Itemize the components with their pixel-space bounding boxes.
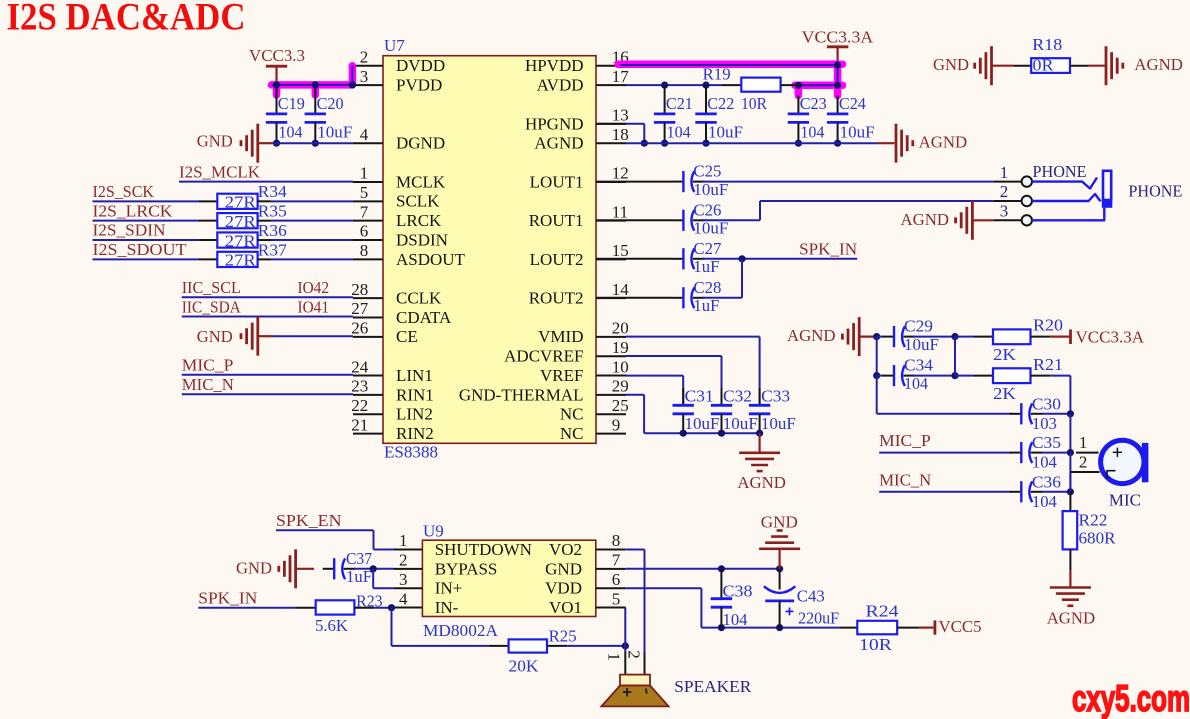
svg-text:IO41: IO41 [298, 297, 330, 316]
svg-text:R22: R22 [1079, 510, 1108, 529]
svg-text:104: 104 [800, 123, 824, 142]
svg-text:CDATA: CDATA [396, 308, 452, 327]
svg-text:3: 3 [399, 570, 408, 589]
svg-text:1: 1 [605, 653, 624, 662]
svg-text:NC: NC [560, 424, 584, 443]
svg-text:DGND: DGND [396, 134, 445, 153]
svg-text:C30: C30 [1032, 394, 1061, 413]
svg-text:12: 12 [612, 164, 629, 183]
svg-text:C19: C19 [278, 94, 305, 113]
svg-text:AGND: AGND [534, 134, 583, 153]
svg-text:103: 103 [1032, 414, 1057, 433]
svg-text:C22: C22 [707, 94, 734, 113]
svg-text:BYPASS: BYPASS [435, 559, 498, 578]
svg-text:C34: C34 [904, 356, 934, 375]
svg-text:3: 3 [360, 67, 369, 86]
svg-text:LOUT1: LOUT1 [530, 172, 584, 191]
svg-text:IN-: IN- [435, 598, 459, 617]
svg-text:10: 10 [612, 357, 629, 376]
svg-text:1uF: 1uF [693, 296, 719, 315]
svg-text:22: 22 [351, 396, 368, 415]
svg-text:29: 29 [612, 377, 629, 396]
svg-text:C35: C35 [1032, 433, 1061, 452]
svg-text:C27: C27 [693, 239, 721, 258]
svg-text:10R: 10R [741, 94, 768, 113]
svg-text:11: 11 [612, 202, 628, 221]
svg-text:C21: C21 [666, 94, 693, 113]
svg-text:R19: R19 [703, 64, 731, 83]
svg-text:U7: U7 [384, 36, 405, 55]
svg-text:8: 8 [360, 241, 369, 260]
svg-text:27: 27 [351, 299, 369, 318]
svg-text:LIN1: LIN1 [396, 366, 433, 385]
svg-text:CCLK: CCLK [396, 289, 442, 308]
svg-text:AGND: AGND [919, 133, 968, 152]
svg-text:1uF: 1uF [346, 567, 372, 586]
svg-text:MIC_P: MIC_P [879, 431, 931, 450]
svg-text:25: 25 [612, 396, 629, 415]
svg-text:24: 24 [351, 357, 369, 376]
svg-text:LIN2: LIN2 [396, 405, 433, 424]
svg-text:10uF: 10uF [693, 219, 728, 238]
svg-text:7: 7 [360, 202, 369, 221]
svg-text:10uF: 10uF [317, 123, 352, 142]
svg-text:1: 1 [399, 531, 408, 550]
svg-text:IN+: IN+ [435, 579, 463, 598]
svg-text:14: 14 [612, 280, 630, 299]
svg-text:U9: U9 [423, 522, 444, 541]
svg-text:10uF: 10uF [693, 180, 728, 199]
svg-text:C20: C20 [317, 94, 344, 113]
svg-text:6: 6 [612, 570, 621, 589]
svg-text:1: 1 [1079, 433, 1088, 452]
svg-text:2: 2 [624, 650, 643, 659]
svg-text:R34: R34 [258, 182, 288, 201]
svg-text:AGND: AGND [787, 326, 836, 345]
svg-text:3: 3 [1000, 202, 1009, 221]
svg-text:C31: C31 [685, 387, 714, 406]
svg-text:VCC3.3A: VCC3.3A [802, 27, 874, 46]
svg-text:C29: C29 [904, 317, 933, 336]
svg-text:23: 23 [351, 377, 368, 396]
svg-text:1uF: 1uF [693, 257, 719, 276]
svg-text:HPGND: HPGND [525, 114, 584, 133]
svg-text:AGND: AGND [737, 473, 786, 492]
svg-text:GND: GND [197, 132, 233, 151]
svg-text:I2S_SCK: I2S_SCK [93, 182, 155, 201]
svg-text:SPK_IN: SPK_IN [198, 588, 257, 607]
svg-text:AGND: AGND [1047, 609, 1096, 628]
svg-text:PHONE: PHONE [1033, 162, 1087, 181]
svg-text:220uF: 220uF [798, 608, 839, 627]
svg-text:C36: C36 [1032, 472, 1061, 491]
svg-text:VO1: VO1 [549, 598, 582, 617]
svg-text:ROUT1: ROUT1 [529, 211, 584, 230]
svg-text:GND: GND [197, 327, 233, 346]
svg-text:I2S_LRCK: I2S_LRCK [93, 201, 174, 220]
svg-text:VDD: VDD [545, 579, 582, 598]
svg-text:10uF: 10uF [723, 414, 758, 433]
svg-text:SPK_IN: SPK_IN [799, 239, 857, 258]
svg-text:104: 104 [723, 610, 748, 629]
svg-text:4: 4 [360, 125, 369, 144]
svg-text:10uF: 10uF [840, 123, 875, 142]
svg-text:8: 8 [612, 531, 621, 550]
svg-text:7: 7 [612, 551, 621, 570]
svg-text:C43: C43 [797, 587, 825, 606]
svg-text:R20: R20 [1033, 316, 1063, 335]
svg-text:27R: 27R [225, 212, 257, 231]
svg-text:0R: 0R [1033, 56, 1055, 75]
svg-text:ES8388: ES8388 [384, 443, 438, 462]
svg-text:MIC_N: MIC_N [879, 471, 931, 490]
svg-text:104: 104 [667, 123, 691, 142]
svg-text:5: 5 [612, 589, 621, 608]
svg-text:13: 13 [612, 106, 629, 125]
svg-text:HPVDD: HPVDD [525, 56, 584, 75]
svg-text:6: 6 [360, 222, 369, 241]
svg-text:C26: C26 [693, 200, 721, 219]
svg-text:I2S_MCLK: I2S_MCLK [179, 162, 261, 181]
svg-text:5.6K: 5.6K [315, 616, 349, 635]
svg-text:R18: R18 [1032, 35, 1062, 54]
svg-text:LOUT2: LOUT2 [530, 250, 584, 269]
svg-text:2K: 2K [993, 384, 1017, 403]
svg-text:GND: GND [933, 55, 969, 74]
svg-text:ROUT2: ROUT2 [529, 289, 584, 308]
svg-text:C28: C28 [693, 278, 721, 297]
svg-text:IIC_SDA: IIC_SDA [182, 297, 242, 316]
svg-text:1: 1 [360, 164, 369, 183]
svg-text:1: 1 [1000, 163, 1009, 182]
svg-text:MIC: MIC [1109, 490, 1141, 509]
svg-text:GND: GND [761, 512, 798, 531]
svg-text:cxy5.com: cxy5.com [1072, 678, 1190, 719]
svg-text:680R: 680R [1079, 528, 1117, 547]
svg-text:SPK_EN: SPK_EN [276, 511, 342, 530]
svg-text:10uF: 10uF [761, 414, 796, 433]
svg-text:AGND: AGND [1134, 55, 1183, 74]
svg-text:20: 20 [612, 319, 629, 338]
svg-text:I2S_SDOUT: I2S_SDOUT [93, 240, 188, 259]
svg-text:MCLK: MCLK [396, 172, 446, 191]
svg-text:SCLK: SCLK [396, 192, 440, 211]
svg-text:R36: R36 [258, 221, 287, 240]
svg-text:C38: C38 [723, 581, 753, 600]
svg-text:R25: R25 [549, 627, 577, 646]
svg-text:27R: 27R [225, 193, 257, 212]
svg-text:MD8002A: MD8002A [423, 621, 499, 640]
svg-text:VCC3.3: VCC3.3 [249, 46, 305, 65]
svg-text:C24: C24 [839, 94, 866, 113]
svg-text:10uF: 10uF [904, 335, 939, 354]
svg-text:15: 15 [612, 241, 629, 260]
svg-text:I2S DAC&ADC: I2S DAC&ADC [7, 0, 246, 39]
svg-text:28: 28 [351, 280, 368, 299]
svg-text:104: 104 [1032, 453, 1057, 472]
svg-text:VREF: VREF [540, 366, 583, 385]
svg-text:MIC_N: MIC_N [182, 375, 234, 394]
svg-text:26: 26 [351, 319, 368, 338]
svg-text:IIC_SCL: IIC_SCL [182, 278, 241, 297]
svg-text:GND-THERMAL: GND-THERMAL [459, 385, 584, 404]
svg-text:VO2: VO2 [549, 540, 582, 559]
svg-text:17: 17 [612, 67, 630, 86]
svg-text:R37: R37 [258, 240, 288, 259]
svg-text:104: 104 [904, 374, 928, 393]
svg-text:DVDD: DVDD [396, 56, 445, 75]
svg-text:PVDD: PVDD [396, 76, 442, 95]
svg-text:C33: C33 [761, 387, 790, 406]
svg-text:2: 2 [399, 551, 408, 570]
svg-text:C23: C23 [800, 94, 827, 113]
svg-text:I2S_SDIN: I2S_SDIN [93, 221, 166, 240]
svg-text:AVDD: AVDD [537, 76, 584, 95]
svg-text:SPEAKER: SPEAKER [674, 677, 752, 696]
svg-text:10uF: 10uF [685, 414, 720, 433]
svg-text:LRCK: LRCK [396, 211, 442, 230]
svg-text:10R: 10R [859, 635, 893, 654]
svg-text:PHONE: PHONE [1128, 182, 1182, 201]
svg-text:104: 104 [279, 123, 303, 142]
svg-text:18: 18 [612, 125, 629, 144]
svg-text:21: 21 [351, 415, 368, 434]
svg-text:VCC3.3A: VCC3.3A [1076, 328, 1145, 347]
svg-text:GND: GND [236, 558, 272, 577]
svg-text:VMID: VMID [538, 327, 583, 346]
svg-text:4: 4 [399, 589, 408, 608]
svg-text:9: 9 [612, 415, 621, 434]
svg-text:RIN1: RIN1 [396, 385, 434, 404]
svg-text:2K: 2K [993, 345, 1017, 364]
svg-text:GND: GND [545, 559, 582, 578]
svg-text:DSDIN: DSDIN [396, 230, 448, 249]
svg-text:2: 2 [1000, 182, 1009, 201]
svg-text:RIN2: RIN2 [396, 424, 434, 443]
svg-text:2: 2 [1079, 453, 1088, 472]
svg-text:C32: C32 [723, 387, 752, 406]
svg-text:SHUTDOWN: SHUTDOWN [435, 540, 532, 559]
svg-text:R35: R35 [258, 202, 287, 221]
svg-text:ADCVREF: ADCVREF [504, 347, 583, 366]
svg-text:20K: 20K [509, 656, 540, 675]
svg-text:5: 5 [360, 183, 369, 202]
svg-text:CE: CE [396, 327, 418, 346]
svg-text:27R: 27R [225, 231, 257, 250]
svg-text:C25: C25 [693, 162, 721, 181]
svg-text:VCC5: VCC5 [939, 617, 982, 636]
svg-text:R21: R21 [1033, 355, 1063, 374]
svg-text:19: 19 [612, 338, 629, 357]
svg-text:ASDOUT: ASDOUT [396, 250, 466, 269]
svg-text:27R: 27R [225, 251, 257, 270]
svg-text:C37: C37 [346, 549, 372, 568]
svg-text:NC: NC [560, 405, 584, 424]
svg-text:IO42: IO42 [298, 278, 330, 297]
svg-text:10uF: 10uF [708, 123, 743, 142]
svg-text:R24: R24 [866, 602, 900, 621]
svg-text:2: 2 [360, 48, 369, 67]
svg-text:AGND: AGND [901, 210, 950, 229]
svg-text:104: 104 [1032, 492, 1057, 511]
svg-text:MIC_P: MIC_P [182, 356, 234, 375]
